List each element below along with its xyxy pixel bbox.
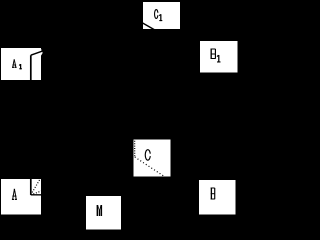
edge CB (dashed, hidden) — [135, 157, 198, 198]
label box A1 — [1, 48, 41, 80]
edge C1B1 (solid) — [135, 18, 200, 55]
label box A — [1, 179, 41, 215]
edge AC (dashed, hidden) — [31, 157, 135, 194]
label box C — [134, 140, 171, 177]
edge A1C1 (solid) — [31, 18, 135, 55]
edge AB (solid horizontal) — [31, 194, 199, 196]
edge CC1 (dashed vertical, hidden) — [133, 18, 135, 157]
white ribbon along edge A1C1 outside box A1 — [41, 49, 43, 55]
label box M — [86, 196, 121, 230]
label B1 text — [211, 49, 221, 63]
segment AC1 (dashed construction line) — [31, 18, 135, 194]
label C1 text — [155, 10, 163, 22]
label box B1 — [200, 41, 238, 72]
label M text (hand drawn narrow glyph) — [97, 205, 103, 216]
label B text — [211, 188, 216, 200]
label A text — [12, 189, 17, 200]
label box B — [199, 180, 236, 215]
label A1 text — [12, 59, 22, 69]
label C text — [145, 150, 151, 161]
label box C1 — [143, 2, 180, 29]
edge AA1 (solid vertical) — [30, 55, 32, 195]
